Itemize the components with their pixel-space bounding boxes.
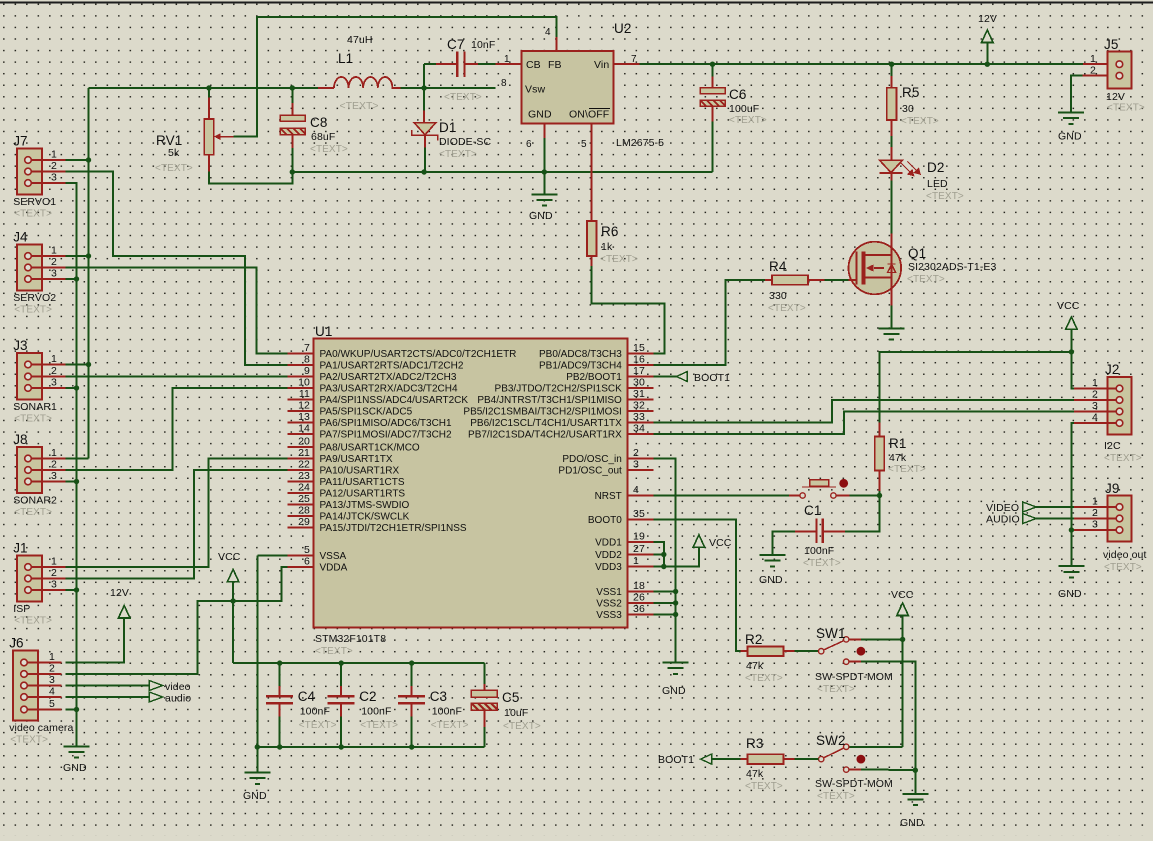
- RV1 top pin: [208, 98, 210, 119]
- junction J9 pin3: [1069, 527, 1074, 532]
- wire C2 bottom: [340, 717, 342, 748]
- junction C4 top: [277, 660, 282, 665]
- wire C4 top: [279, 663, 281, 686]
- U1 pin 18 VSS1: [628, 591, 654, 593]
- wire to C7: [423, 64, 425, 88]
- R4 left pin: [765, 279, 772, 281]
- svg-text:7: 7: [304, 342, 310, 354]
- svg-text:L1: L1: [338, 51, 353, 66]
- connector connector J7 SERVO1: [17, 149, 42, 195]
- svg-text:PA2/USART2TX/ADC2/T2CH3: PA2/USART2TX/ADC2/T2CH3: [320, 372, 457, 383]
- svg-text:3: 3: [1092, 400, 1098, 412]
- wire J1 pin1 to U1 pin21: [65, 459, 287, 568]
- svg-text:VSS2: VSS2: [596, 599, 622, 610]
- reset switch right pin: [836, 495, 849, 497]
- wire C5 bottom: [483, 727, 485, 747]
- U1 pin 1 VDD3: [628, 566, 654, 568]
- U1 pin 21 PA9: [288, 458, 314, 460]
- C8 bottom pin: [291, 135, 293, 149]
- C2 bottom pin: [340, 703, 342, 716]
- svg-text:17: 17: [633, 365, 645, 377]
- wire 12V to J6 pin1: [65, 618, 124, 663]
- U1 pin 15 PB0: [628, 353, 654, 355]
- svg-text:4: 4: [1092, 412, 1098, 424]
- C8 top pin: [291, 103, 293, 115]
- svg-text:SERVO1: SERVO1: [13, 196, 56, 208]
- svg-text:PA4/SPI1NSS/ADC4/USART2CK: PA4/SPI1NSS/ADC4/USART2CK: [320, 395, 469, 406]
- svg-text:U1: U1: [315, 324, 332, 339]
- svg-text:VDD1: VDD1: [595, 538, 622, 549]
- svg-text:12: 12: [298, 400, 310, 412]
- U1 pin 35 BOOT0: [628, 519, 654, 521]
- svg-text:<TEXT>: <TEXT>: [14, 414, 52, 425]
- svg-text:3: 3: [633, 459, 639, 471]
- wire Q1 source to ground: [891, 306, 893, 329]
- wire R2 to SW1: [795, 650, 819, 652]
- svg-text:1: 1: [504, 54, 510, 65]
- junction J3 pin3: [74, 385, 79, 390]
- svg-text:1: 1: [633, 555, 639, 567]
- Q1 drain pin: [891, 233, 893, 255]
- wire RV1 wiper to U2 pin4: [234, 17, 557, 137]
- svg-text:PB1/ADC9/T3CH4: PB1/ADC9/T3CH4: [539, 361, 622, 372]
- svg-text:5: 5: [581, 139, 587, 150]
- svg-text:CB: CB: [526, 59, 541, 71]
- J6 pin 4 stub: [24, 696, 61, 698]
- connector connector J6 video camera: [13, 651, 38, 721]
- svg-text:PA3/USART2RX/ADC3/T2CH4: PA3/USART2RX/ADC3/T2CH4: [320, 384, 458, 395]
- connector connector J1 ISP: [17, 556, 42, 602]
- svg-text:GND: GND: [759, 574, 783, 586]
- svg-text:<TEXT>: <TEXT>: [901, 116, 939, 127]
- wire R5 to D2: [891, 136, 893, 147]
- svg-text:5: 5: [304, 544, 310, 556]
- svg-text:3: 3: [51, 172, 57, 184]
- svg-text:BOOT1: BOOT1: [658, 754, 694, 766]
- svg-text:J5: J5: [1104, 37, 1118, 52]
- svg-text:32: 32: [633, 400, 645, 412]
- U1 pin 33 PB6: [628, 422, 654, 424]
- R1 top pin: [879, 423, 881, 437]
- svg-text:GND: GND: [1058, 131, 1082, 143]
- junction VDD3: [661, 564, 666, 569]
- R2 left pin: [741, 650, 748, 652]
- capacitor C4 100nF: [266, 696, 293, 703]
- junction RV1 top: [206, 85, 211, 90]
- svg-text:R1: R1: [889, 436, 906, 451]
- svg-text:C6: C6: [729, 87, 746, 102]
- svg-text:100nF: 100nF: [804, 545, 834, 557]
- wire SW1 to VCC: [861, 638, 903, 640]
- terminal AUDIO: [1023, 514, 1037, 524]
- resistor R1 47k: [875, 437, 885, 471]
- svg-text:<TEXT>: <TEXT>: [745, 781, 783, 792]
- wire J7 pin1 to bus: [65, 159, 88, 161]
- C5 bottom pin: [483, 708, 485, 727]
- U1 pin 5 VSSA: [288, 555, 314, 557]
- svg-text:<TEXT>: <TEXT>: [907, 274, 945, 285]
- Q1 gate pin: [849, 279, 857, 281]
- wire J4 pin3 to ground bus: [65, 278, 76, 280]
- svg-text:<TEXT>: <TEXT>: [14, 209, 52, 220]
- svg-text:11: 11: [299, 388, 310, 400]
- svg-text:PB0/ADC8/T3CH3: PB0/ADC8/T3CH3: [539, 349, 622, 360]
- svg-text:<TEXT>: <TEXT>: [439, 149, 477, 160]
- C6 top pin: [712, 77, 714, 88]
- U2 pin 7 stub: [614, 63, 640, 65]
- junction VSS row 603: [673, 600, 678, 605]
- wire J5 pin2 to ground: [1071, 76, 1083, 113]
- wire C7 to U2 pin1: [478, 63, 495, 65]
- svg-text:SONAR2: SONAR2: [13, 495, 57, 507]
- svg-text:2: 2: [633, 447, 639, 459]
- junction J6 pin5: [74, 707, 79, 712]
- svg-text:AUDIO: AUDIO: [986, 514, 1020, 526]
- C4 bottom pin: [279, 703, 281, 716]
- svg-text:2: 2: [1092, 389, 1098, 401]
- U1 pin 20 PA8: [288, 446, 314, 448]
- J7 pin 3 stub: [28, 182, 65, 184]
- capacitor C1 100nF: [816, 518, 822, 543]
- junction C2 top: [339, 660, 344, 665]
- connector connector J3 SONAR1: [17, 353, 42, 400]
- J9 pin 1 stub: [1074, 506, 1119, 508]
- transistor Q1 SI2302ADS-T1-E3: [849, 242, 902, 295]
- svg-text:<TEXT>: <TEXT>: [803, 558, 841, 569]
- svg-text:6: 6: [304, 556, 310, 568]
- wire C8 bottom green: [291, 148, 293, 172]
- wire VCC left stem: [232, 582, 234, 601]
- J2 pin 3 stub: [1074, 411, 1119, 413]
- svg-text:J9: J9: [1105, 481, 1119, 496]
- svg-text:3: 3: [51, 579, 57, 591]
- svg-text:22: 22: [298, 459, 310, 471]
- junction C3 top: [409, 660, 414, 665]
- junction J3 pin1: [86, 362, 91, 367]
- J8 pin 1 stub: [28, 458, 65, 460]
- svg-text:PB3/JTDO/T2CH2/SPI1SCK: PB3/JTDO/T2CH2/SPI1SCK: [495, 384, 623, 395]
- svg-text:1: 1: [49, 651, 55, 663]
- sheet border top line: [0, 2, 1153, 4]
- U1 pin 29 PA15: [288, 527, 314, 529]
- D2 anode pin: [891, 147, 893, 160]
- J5 pin 2 stub: [1083, 75, 1108, 77]
- wire reset switch to node: [849, 495, 879, 497]
- svg-text:25: 25: [298, 493, 310, 505]
- wire node to C1: [845, 496, 880, 532]
- svg-text:D2: D2: [927, 160, 944, 175]
- terminal audio: [149, 692, 163, 702]
- junction J4 pin1: [86, 253, 91, 258]
- junction VCC right: [1069, 349, 1074, 354]
- U1 pin 26 VSS2: [628, 602, 654, 604]
- wire BOOT0 to R2: [653, 520, 740, 652]
- RV1 wiper arrow: [218, 136, 234, 138]
- U1 pin 27 VDD2: [628, 554, 654, 556]
- J2 pin 4 stub: [1074, 422, 1119, 424]
- svg-text:I2C: I2C: [1104, 440, 1121, 452]
- svg-text:VDD2: VDD2: [595, 550, 622, 561]
- svg-text:PD1/OSC_out: PD1/OSC_out: [558, 466, 622, 477]
- resistor R2 47k: [748, 646, 784, 656]
- svg-text:<TEXT>: <TEXT>: [444, 92, 482, 103]
- svg-text:1: 1: [1092, 496, 1098, 508]
- svg-text:SW1: SW1: [816, 626, 846, 641]
- R3 right pin: [784, 758, 795, 760]
- microcontroller U1 STM32F101T8: [314, 338, 628, 627]
- svg-text:SERVO2: SERVO2: [13, 292, 56, 304]
- pushbutton reset switch: [810, 480, 829, 486]
- svg-text:C2: C2: [359, 689, 376, 704]
- svg-text:6: 6: [526, 139, 532, 150]
- C7 right pin: [466, 63, 478, 65]
- svg-text:<TEXT>: <TEXT>: [155, 163, 193, 174]
- wire U1 pin17 to BOOT1: [653, 376, 676, 378]
- svg-text:5k: 5k: [168, 147, 180, 159]
- wire J6 pin2 to VCC node: [65, 601, 233, 674]
- U1 pin 24 PA12: [288, 492, 314, 494]
- J6 pin 3 stub: [24, 685, 61, 687]
- svg-text:47uH: 47uH: [347, 34, 373, 46]
- J4 pin 1 stub: [28, 255, 65, 257]
- J2 pin 2 stub: [1074, 399, 1119, 401]
- svg-text:18: 18: [633, 580, 645, 592]
- U1 pin 14 PA7: [288, 433, 314, 435]
- svg-text:VCC: VCC: [891, 589, 914, 601]
- svg-text:PB7/I2C1SDA/T4CH2/USART1RX: PB7/I2C1SDA/T4CH2/USART1RX: [468, 430, 622, 441]
- R1 bottom pin: [879, 471, 881, 492]
- svg-text:PA7/SPI1MOSI/ADC7/T3CH2: PA7/SPI1MOSI/ADC7/T3CH2: [320, 430, 453, 441]
- svg-text:13: 13: [298, 411, 310, 423]
- svg-text:VDD3: VDD3: [595, 562, 622, 573]
- R3 left pin: [741, 758, 748, 760]
- U1 pin 17 PB2: [628, 376, 654, 378]
- wire VCC SW stem: [902, 616, 904, 640]
- svg-text:<TEXT>: <TEXT>: [339, 100, 378, 112]
- wire cap bottom rail: [257, 746, 484, 748]
- C1 left pin: [795, 531, 815, 533]
- wire VDD1 VDD2 VDD3 to VCC: [653, 542, 664, 567]
- svg-text:12V: 12V: [110, 587, 129, 599]
- wire R5 top: [891, 64, 893, 76]
- svg-text:<TEXT>: <TEXT>: [1104, 453, 1142, 464]
- svg-text:DIODE-SC: DIODE-SC: [439, 136, 491, 148]
- svg-text:47k: 47k: [746, 660, 764, 672]
- svg-text:J2: J2: [1105, 362, 1119, 377]
- wire J1 pin2 to U1 pin22: [65, 470, 287, 579]
- J8 pin 3 stub: [28, 481, 65, 483]
- U1 pin 28 PA14: [288, 515, 314, 517]
- svg-text:10uF: 10uF: [504, 707, 528, 719]
- wire cap top rail: [233, 662, 484, 664]
- svg-text:8: 8: [501, 78, 507, 89]
- svg-text:15: 15: [633, 342, 645, 354]
- svg-text:VSS3: VSS3: [596, 610, 622, 621]
- svg-text:2: 2: [51, 256, 57, 268]
- C2 top pin: [340, 686, 342, 696]
- wire D2 to Q1 drain: [891, 181, 893, 234]
- svg-text:J1: J1: [13, 541, 27, 556]
- svg-text:4: 4: [545, 27, 551, 38]
- junction J8 pin3: [74, 479, 79, 484]
- J6 pin 2 stub: [24, 673, 61, 675]
- wire U1 pin33 to J2 pin2: [653, 400, 1074, 423]
- wire C8 top green: [291, 88, 293, 103]
- svg-text:VSSA: VSSA: [320, 551, 347, 562]
- svg-text:J8: J8: [13, 432, 27, 447]
- junction 12V arrow: [985, 61, 990, 66]
- svg-text:100nF: 100nF: [432, 706, 462, 718]
- svg-text:C5: C5: [502, 690, 519, 705]
- terminal video: [149, 681, 163, 691]
- diode D1 DIODE-SC: [414, 123, 436, 135]
- svg-text:SW-SPDT-MOM: SW-SPDT-MOM: [815, 671, 893, 683]
- connector connector J8 SONAR2: [17, 447, 42, 493]
- J7 pin 2 stub: [28, 171, 65, 173]
- regulator U2 LM2675-5: [521, 51, 613, 123]
- svg-text:35: 35: [633, 508, 645, 520]
- connector J9 video out: [1108, 496, 1132, 542]
- wire J6 pin4 to audio terminal: [65, 696, 149, 698]
- J8 pin 2 stub: [28, 469, 65, 471]
- wire J3 pin2 to U1 pin9: [65, 376, 287, 378]
- svg-text:<TEXT>: <TEXT>: [817, 791, 855, 802]
- svg-text:PA0/WKUP/USART2CTS/ADC0/T2CH1E: PA0/WKUP/USART2CTS/ADC0/T2CH1ETR: [320, 349, 517, 360]
- svg-text:20: 20: [298, 436, 310, 448]
- switch SW2 SW-SPDT-MOM: [819, 756, 824, 761]
- ground under C1: [760, 555, 786, 566]
- svg-text:<TEXT>: <TEXT>: [503, 721, 541, 732]
- wire R4 to Q1 gate: [825, 279, 849, 281]
- svg-text:GND: GND: [529, 210, 553, 222]
- svg-text:<TEXT>: <TEXT>: [745, 673, 783, 684]
- wire NRST to reset switch: [653, 495, 789, 497]
- J9 pin 3 stub: [1074, 529, 1119, 531]
- junction J7 pin1: [86, 157, 91, 162]
- U1 pin 11 PA4: [288, 399, 314, 401]
- svg-text:2: 2: [51, 365, 57, 377]
- reset switch left pin: [789, 495, 800, 497]
- junction VSS row 591.5: [673, 589, 678, 594]
- capacitor C3 100nF: [398, 696, 425, 703]
- svg-text:VCC: VCC: [709, 537, 732, 549]
- svg-text:PA9/USART1TX: PA9/USART1TX: [320, 454, 393, 465]
- U1 pin 2 PDO: [628, 458, 654, 460]
- svg-text:68uF: 68uF: [311, 131, 335, 143]
- terminal BOOT1 top: [676, 372, 687, 382]
- U2 pin 1 stub: [495, 63, 521, 65]
- wire SW1 throw2 to ground: [861, 662, 915, 771]
- svg-text:1: 1: [51, 556, 57, 568]
- svg-text:330: 330: [769, 290, 787, 302]
- C7 left pin: [436, 63, 456, 65]
- svg-text:3: 3: [51, 377, 57, 389]
- U1 pin 30 PB3: [628, 387, 654, 389]
- U1 pin 7 PA0: [288, 353, 314, 355]
- svg-text:4: 4: [633, 484, 639, 496]
- svg-text:VCC: VCC: [218, 551, 241, 563]
- svg-text:34: 34: [633, 423, 645, 435]
- SW1 throw1 pin: [849, 638, 861, 640]
- svg-text:PA10/USART1RX: PA10/USART1RX: [320, 466, 400, 477]
- svg-text:R5: R5: [902, 85, 919, 100]
- svg-text:RV1: RV1: [156, 133, 182, 148]
- wire VSSA down to cap bottom rail: [256, 556, 258, 748]
- ground under switches: [902, 794, 928, 805]
- svg-text:BOOT1: BOOT1: [694, 372, 730, 384]
- svg-text:26: 26: [633, 592, 645, 604]
- D1 anode pin: [423, 111, 425, 123]
- resistor R5 30: [887, 88, 897, 120]
- svg-text:video out: video out: [1103, 549, 1147, 561]
- U1 pin 6 VDDA: [288, 566, 314, 568]
- svg-text:<TEXT>: <TEXT>: [817, 684, 855, 695]
- svg-text:STM32F101T8: STM32F101T8: [315, 633, 386, 645]
- svg-text:GND: GND: [662, 685, 686, 697]
- svg-text:GND: GND: [243, 790, 267, 802]
- svg-text:ISP: ISP: [13, 603, 30, 615]
- wire R1 to node: [879, 491, 881, 496]
- C1 right pin: [824, 531, 845, 533]
- J2 pin 1 stub: [1074, 388, 1119, 390]
- svg-text:Vin: Vin: [594, 59, 609, 71]
- Q1 source pin: [891, 278, 893, 306]
- svg-text:12V: 12V: [1106, 91, 1125, 103]
- U1 pin 3 PD1: [628, 469, 654, 471]
- svg-text:<TEXT>: <TEXT>: [729, 115, 767, 126]
- U2 pin 6 stub: [543, 124, 545, 138]
- U1 pin 36 VSS3: [628, 614, 654, 616]
- wire RV1 bottom to rail: [209, 171, 292, 183]
- wire D1 to rail: [424, 148, 426, 173]
- svg-text:BOOT0: BOOT0: [588, 515, 622, 526]
- svg-text:3: 3: [1092, 519, 1098, 531]
- SW2 throw1 pin: [846, 746, 849, 748]
- svg-text:1: 1: [51, 353, 57, 365]
- D2 cathode pin: [891, 173, 893, 181]
- wire J1 pin3 to ground bus: [65, 589, 76, 591]
- svg-text:GND: GND: [900, 817, 924, 829]
- J3 pin 3 stub: [28, 387, 65, 389]
- wire J3 pin1 to bus: [65, 364, 88, 366]
- svg-text:PA5/SPI1SCK/ADC5: PA5/SPI1SCK/ADC5: [320, 407, 413, 418]
- R2 right pin: [784, 650, 795, 652]
- svg-text:SONAR1: SONAR1: [13, 401, 57, 413]
- svg-text:C1: C1: [804, 503, 821, 518]
- svg-text:Vsw: Vsw: [525, 84, 545, 96]
- junction bottom rail left: [255, 744, 260, 749]
- junction C8 bottom: [290, 169, 295, 174]
- U1 pin 4 NRST: [628, 495, 654, 497]
- wire ground bus left: [65, 183, 76, 746]
- junction J1 pin3: [74, 587, 79, 592]
- U1 pin 9 PA2: [288, 376, 314, 378]
- ground under U2: [531, 194, 557, 205]
- power symbol VCC right: [1066, 317, 1078, 330]
- J1 pin 3 stub: [28, 589, 65, 591]
- junction NRST/R1/C1: [877, 493, 882, 498]
- LED D2: [880, 160, 903, 172]
- svg-text:1k: 1k: [601, 241, 613, 253]
- svg-text:C7: C7: [447, 37, 464, 52]
- RV1 bottom pin: [208, 155, 210, 172]
- svg-text:R6: R6: [601, 224, 618, 239]
- power symbol VCC mid: [693, 535, 705, 548]
- J6 pin 5 stub: [24, 709, 61, 711]
- wire J7 pin2 to U1 pin8: [65, 172, 287, 366]
- wire SW2 throw2 to ground node: [861, 769, 915, 771]
- svg-text:PA8/USART1CK/MCO: PA8/USART1CK/MCO: [320, 443, 420, 454]
